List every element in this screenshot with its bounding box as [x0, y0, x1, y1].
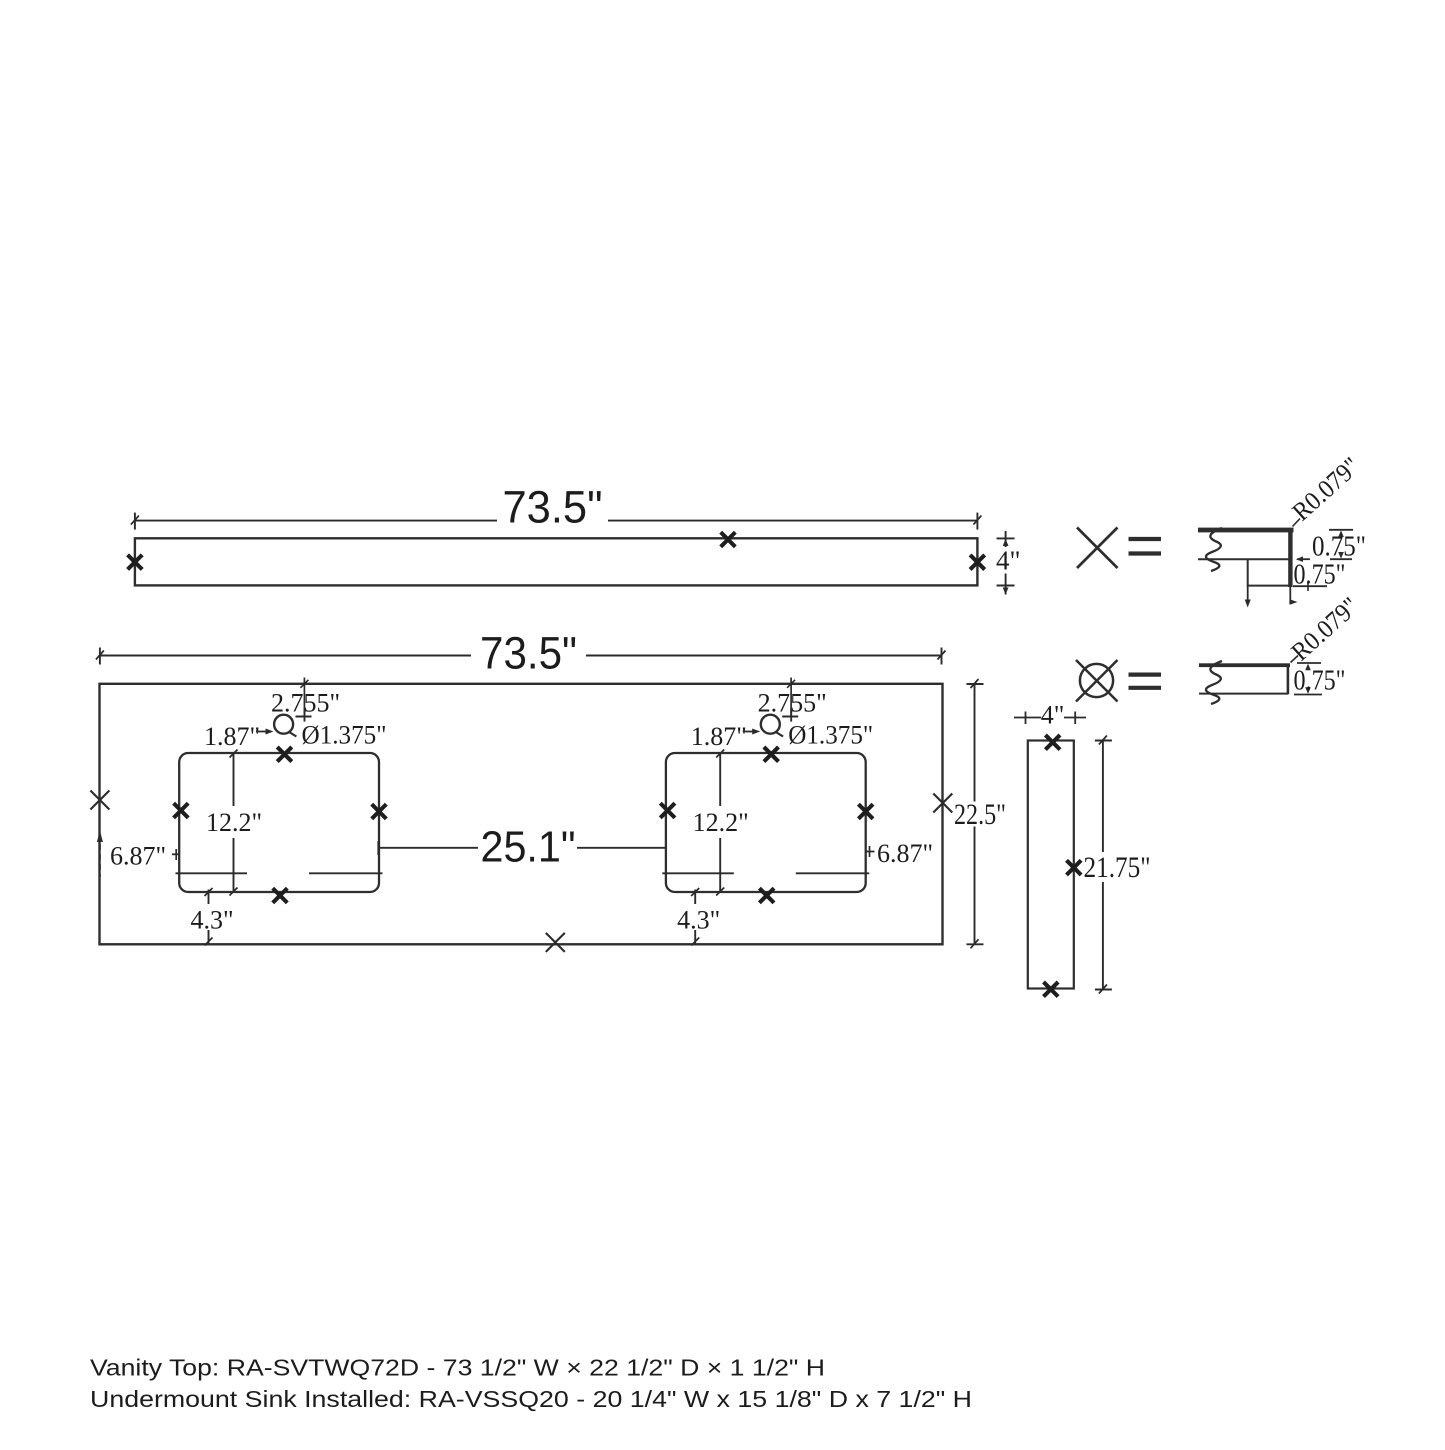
svg-text:0.75": 0.75" — [1312, 532, 1366, 563]
left sink inner bottom broken line — [176, 872, 383, 874]
plan x marker bottom edge — [546, 933, 565, 952]
legend2 equals sign — [1129, 675, 1162, 688]
svg-text:73.5": 73.5" — [503, 482, 603, 533]
right sink 12.2" dimension line — [716, 750, 724, 896]
svg-text:Vanity Top: RA-SVTWQ72D - 73 1: Vanity Top: RA-SVTWQ72D - 73 1/2" W × 22… — [90, 1355, 825, 1381]
countertop outline — [100, 684, 943, 945]
backsplash x marker right edge — [970, 555, 985, 570]
side panel 21.75" dimension line — [1095, 736, 1112, 994]
sink spacing dimension line 25.1" — [378, 841, 666, 855]
svg-text:22.5": 22.5" — [954, 798, 1006, 831]
backsplash x marker left edge — [128, 555, 143, 570]
svg-text:0.75": 0.75" — [1294, 560, 1346, 591]
profile2 break squiggle — [1206, 661, 1222, 704]
profile1 buildup box — [1248, 559, 1290, 585]
legend1 X symbol — [1077, 528, 1118, 569]
svg-text:25.1": 25.1" — [481, 823, 576, 872]
profile2 0.75 dimension marks — [1294, 663, 1322, 695]
profile2 R0.079" leader and label — [1286, 591, 1365, 666]
side panel x marker top — [1045, 735, 1060, 750]
svg-text:21.75": 21.75" — [1084, 851, 1151, 884]
right 6.87" dimension — [866, 846, 875, 857]
svg-text:Undermount Sink Installed: RA-: Undermount Sink Installed: RA-VSSQ20 - 2… — [90, 1386, 972, 1412]
left 4.3" dimension line — [205, 888, 213, 946]
side panel 4" dimension — [1014, 712, 1086, 725]
svg-text:2.755": 2.755" — [271, 689, 340, 718]
svg-text:73.5": 73.5" — [480, 628, 577, 679]
right sink x marker top — [764, 747, 779, 762]
right 2.755" extension line — [787, 678, 795, 717]
svg-text:6.87": 6.87" — [110, 842, 166, 871]
profile1 0.75 bottom dimension marks — [1293, 582, 1327, 592]
plan x marker left edge — [90, 791, 109, 810]
right sink inner bottom broken line — [662, 872, 869, 874]
svg-text:4.3": 4.3" — [677, 906, 720, 935]
profile2 right edge — [1287, 664, 1290, 694]
backsplash outline — [135, 538, 978, 585]
left sink x marker bottom — [273, 888, 288, 903]
profile1 R0.079" top leader and label — [1287, 451, 1366, 526]
left sink x marker right — [372, 804, 387, 819]
profile1 slab bottom line — [1198, 558, 1290, 560]
svg-text:4": 4" — [996, 546, 1021, 576]
right label 1.87" with arrow — [691, 722, 761, 751]
legend1 equals sign — [1129, 539, 1162, 554]
profile1 right edge (thick) — [1288, 528, 1292, 587]
svg-text:4": 4" — [1041, 701, 1065, 730]
plan x marker right edge — [933, 794, 952, 813]
right 4.3" dimension line — [691, 888, 699, 946]
profile1 break squiggle — [1206, 528, 1222, 571]
left sink x marker left — [174, 803, 189, 818]
left 2.755" extension line — [300, 678, 308, 717]
svg-text:1.87": 1.87" — [204, 722, 260, 751]
left label 1.87" with arrow — [204, 722, 274, 751]
svg-text:2.755": 2.755" — [758, 689, 827, 718]
left faucet center cross — [296, 709, 312, 721]
profile2 slab bottom line — [1199, 693, 1289, 695]
svg-text:Ø1.375": Ø1.375" — [302, 721, 387, 750]
side panel x marker right edge — [1067, 860, 1082, 875]
svg-text:1.87": 1.87" — [691, 722, 747, 751]
plan width dimension line 73.5" — [96, 648, 946, 665]
right faucet center cross — [782, 709, 798, 721]
profile1 lower extension lines with arrows — [1245, 586, 1298, 608]
left sink x marker top — [277, 747, 292, 762]
left sink 12.2" dimension line — [230, 750, 238, 896]
profile1 countertop slab top (thick) — [1198, 528, 1294, 533]
svg-text:12.2": 12.2" — [693, 808, 749, 837]
profile2 slab top (thick) — [1199, 663, 1290, 667]
svg-text:4.3": 4.3" — [190, 906, 233, 935]
svg-text:6.87": 6.87" — [877, 839, 933, 868]
left 6.87" dimension — [97, 831, 179, 878]
legend2 circled X symbol — [1076, 660, 1118, 702]
right sink x marker bottom — [759, 888, 774, 903]
svg-text:12.2": 12.2" — [206, 808, 262, 837]
right sink x marker left — [660, 803, 675, 818]
backsplash height dimension 4" — [997, 531, 1015, 595]
backsplash x marker top edge — [721, 532, 736, 547]
right sink x marker right — [858, 804, 873, 819]
side panel outline — [1028, 741, 1074, 989]
right faucet hole circle — [761, 715, 783, 737]
backsplash width dimension line 73.5" — [131, 513, 982, 530]
side panel x marker bottom — [1044, 982, 1059, 997]
svg-text:Ø1.375": Ø1.375" — [788, 721, 873, 750]
left faucet hole circle — [274, 715, 296, 737]
plan depth dimension line 22.5" — [967, 679, 984, 948]
right sink cutout outline — [666, 753, 866, 892]
left sink cutout outline — [179, 753, 379, 892]
svg-text:0.75": 0.75" — [1294, 666, 1346, 697]
profile1 0.75 top dimension marks — [1296, 530, 1353, 562]
